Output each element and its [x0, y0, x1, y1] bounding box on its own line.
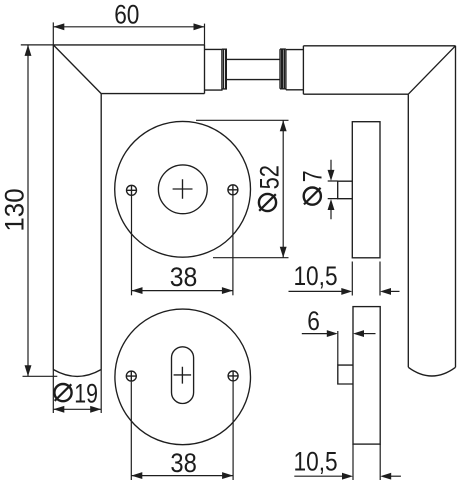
dim 38 top extension left [131, 196, 133, 295]
dim 6 line right [363, 333, 376, 335]
arrow 38top right [222, 287, 233, 294]
dim O52 line [282, 120, 284, 257]
svg-text:6: 6 [307, 306, 320, 336]
bottom rosette right screw [228, 371, 238, 381]
dim 130 extension bottom [23, 375, 58, 377]
right handle miter line [408, 46, 455, 94]
dim O19 extension left [52, 370, 54, 414]
left handle miter line [53, 45, 101, 94]
bottom rosette left screw [126, 371, 136, 381]
right handle left end [302, 46, 304, 94]
bottom rosette center cross [174, 367, 192, 384]
top rosette right screw [228, 185, 238, 195]
arrow 38top left [132, 287, 143, 294]
arrow O52 bottom [280, 247, 287, 258]
arrow dim130 bottom [25, 365, 32, 376]
right collar [286, 50, 304, 90]
dim 10,5 top line right [390, 290, 400, 292]
right ring band [281, 49, 283, 89]
svg-text:38: 38 [170, 263, 198, 292]
left handle top edge [53, 44, 204, 46]
dim 60 extension right [204, 24, 206, 45]
dim O19 extension right [100, 370, 102, 414]
diameter symbol of O52 [259, 194, 276, 211]
top side view spigot [338, 181, 353, 199]
top rosette left screw [127, 185, 137, 195]
key rosette side view body [353, 307, 380, 445]
arrow dim130 top [25, 45, 32, 56]
dim 60 line [53, 26, 204, 28]
right grip left edge [407, 94, 409, 367]
dim 10,5 bottom line left [294, 475, 343, 477]
dim 10,5 top line left [289, 290, 343, 292]
dim 38 bottom extension right [232, 381, 234, 480]
left collar [205, 49, 222, 90]
right ring [280, 49, 286, 89]
top rosette circle [115, 121, 251, 257]
arrow O19 left [53, 406, 64, 413]
top rosette side view body [352, 122, 380, 258]
key side view spigot [338, 365, 353, 384]
left handle right end [204, 45, 206, 94]
dim 60 extension left [52, 22, 54, 45]
dim O52 extension bottom [213, 257, 289, 259]
left grip bottom cap [53, 370, 101, 377]
arrow dim60 left [53, 23, 64, 30]
left handle bottom edge [101, 93, 204, 95]
arrow 10,5bot right-point [342, 473, 353, 480]
dim 6 line left [302, 333, 328, 335]
svg-text:130: 130 [0, 188, 29, 231]
left grip left edge [52, 45, 54, 370]
left ring [222, 49, 227, 89]
dim 38 top extension right [232, 195, 234, 295]
svg-text:10,5: 10,5 [293, 261, 337, 291]
arrow O52 top [280, 120, 287, 131]
arrow 10,5top left-point [380, 288, 391, 295]
dim O7 extension ticks [328, 181, 338, 199]
arrow O19 right [90, 406, 101, 413]
arrow 38bot right [222, 472, 233, 479]
left ring band [225, 49, 227, 89]
dim 38 top line [132, 290, 233, 292]
right handle top edge [303, 45, 455, 47]
arrow 38bot left [131, 472, 142, 479]
arrow 10,5bot left-point [380, 473, 391, 480]
right handle bottom edge [303, 93, 408, 95]
dim 10,5 top extensions [352, 262, 380, 296]
top rosette center cross [173, 179, 193, 199]
svg-text:52: 52 [255, 165, 285, 189]
dim O7 arrow lines [330, 160, 332, 219]
svg-text:10,5: 10,5 [294, 447, 338, 477]
arrow dim60 right [194, 23, 205, 30]
arrow 10,5top right-point [341, 288, 352, 295]
dim 10,5 bottom line right [390, 475, 401, 477]
diameter symbol of O7 [304, 188, 321, 205]
right grip bottom cap [408, 367, 455, 376]
top rosette bearing circle [158, 165, 207, 214]
svg-text:60: 60 [114, 0, 139, 30]
svg-text:38: 38 [170, 449, 196, 479]
right grip right edge [455, 46, 457, 368]
dim 130 extension top [21, 44, 54, 46]
arrow dim6 left-point [353, 330, 364, 337]
dim O52 extension top [196, 119, 289, 121]
dim 38 bottom line [131, 475, 233, 477]
dim 10,5 bottom extensions [353, 444, 380, 480]
arrow O7 up [328, 199, 335, 210]
arrow dim6 right-point [327, 330, 338, 337]
arrow O7 down [328, 170, 335, 181]
diameter symbol of O19 [54, 384, 71, 401]
svg-text:19: 19 [74, 379, 98, 409]
left grip right edge [100, 94, 102, 370]
keyhole [172, 347, 194, 404]
dim 38 bottom extension left [130, 382, 132, 480]
dim O19 line [53, 408, 101, 410]
dim 130 line [27, 45, 29, 376]
svg-text:7: 7 [298, 170, 328, 182]
dim 6 extension [337, 331, 339, 365]
bottom rosette circle [115, 309, 251, 445]
spindle [227, 59, 280, 79]
